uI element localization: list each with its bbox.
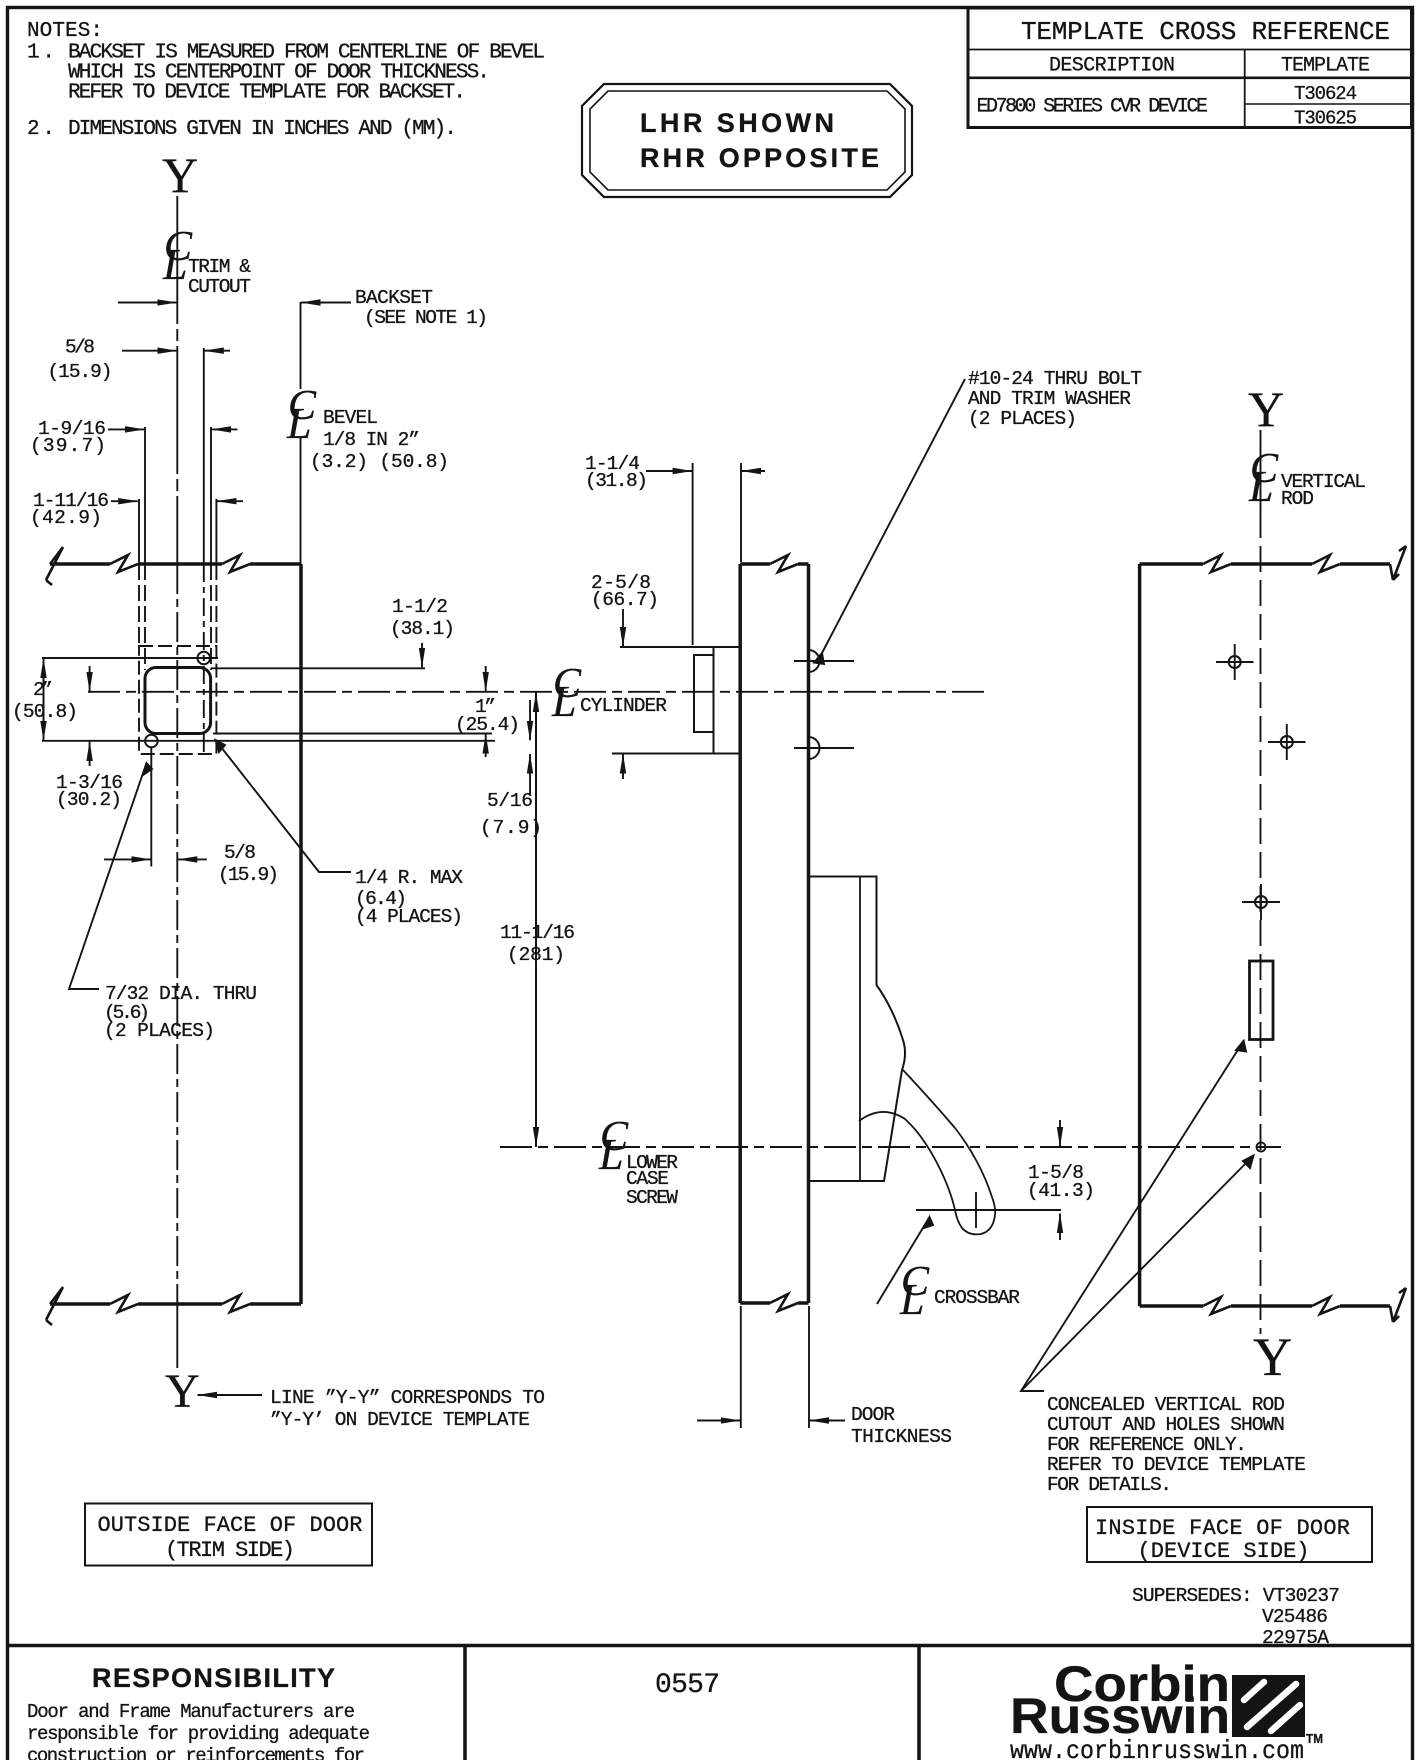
svg-text:11-1/16: 11-1/16 <box>500 922 575 944</box>
svg-text:(SEE NOTE 1): (SEE NOTE 1) <box>364 307 488 329</box>
svg-text:CUTOUT AND HOLES SHOWN: CUTOUT AND HOLES SHOWN <box>1047 1414 1285 1436</box>
svg-text:ED7800 SERIES CVR DEVICE: ED7800 SERIES CVR DEVICE <box>977 96 1209 119</box>
svg-text:REFER TO DEVICE TEMPLATE: REFER TO DEVICE TEMPLATE <box>1047 1454 1306 1476</box>
svg-text:DESCRIPTION: DESCRIPTION <box>1049 55 1175 78</box>
svg-text:1/8 IN 2”: 1/8 IN 2” <box>323 429 420 451</box>
svg-text:BACKSET: BACKSET <box>355 287 433 309</box>
svg-text:(38.1): (38.1) <box>390 618 455 640</box>
svg-text:Door and Frame Manufacturers a: Door and Frame Manufacturers are <box>27 1701 355 1723</box>
svg-text:RHR OPPOSITE: RHR OPPOSITE <box>640 143 879 173</box>
svg-text:5/16: 5/16 <box>487 790 533 812</box>
svg-text:5/8: 5/8 <box>65 337 95 359</box>
svg-text:FOR REFERENCE ONLY.: FOR REFERENCE ONLY. <box>1047 1434 1247 1456</box>
svg-text:(25.4): (25.4) <box>455 714 520 736</box>
svg-text:BEVEL: BEVEL <box>323 407 378 429</box>
svg-text:NOTES:: NOTES: <box>27 20 103 43</box>
svg-text:OUTSIDE FACE OF DOOR: OUTSIDE FACE OF DOOR <box>98 1513 363 1538</box>
svg-text:TEMPLATE CROSS REFERENCE: TEMPLATE CROSS REFERENCE <box>1021 17 1390 47</box>
svg-text:(TRIM SIDE): (TRIM SIDE) <box>165 1538 295 1563</box>
svg-text:responsible for providing adeq: responsible for providing adequate <box>27 1723 370 1745</box>
svg-text:(30.2): (30.2) <box>56 789 122 811</box>
svg-text:(2 PLACES): (2 PLACES) <box>104 1020 215 1042</box>
svg-text:#10-24 THRU BOLT: #10-24 THRU BOLT <box>968 368 1142 390</box>
svg-text:Y: Y <box>165 1365 200 1418</box>
svg-text:TEMPLATE: TEMPLATE <box>1281 55 1370 78</box>
svg-text:REFER TO DEVICE TEMPLATE FOR B: REFER TO DEVICE TEMPLATE FOR BACKSET. <box>68 82 466 105</box>
svg-text:ROD: ROD <box>1281 488 1314 510</box>
svg-text:(15.9): (15.9) <box>48 361 113 383</box>
svg-text:FOR DETAILS.: FOR DETAILS. <box>1047 1474 1172 1496</box>
svg-text:DOOR: DOOR <box>851 1404 895 1426</box>
svg-text:SCREW: SCREW <box>626 1187 678 1209</box>
svg-text:SUPERSEDES: VT30237: SUPERSEDES: VT30237 <box>1132 1585 1340 1607</box>
svg-text:1/4 R. MAX: 1/4 R. MAX <box>355 867 463 889</box>
svg-text:TM: TM <box>1306 1731 1323 1746</box>
svg-text:Y: Y <box>162 147 198 203</box>
svg-text:1-1/2: 1-1/2 <box>392 596 448 618</box>
svg-text:(42.9): (42.9) <box>30 507 102 529</box>
svg-text:2.: 2. <box>27 118 55 141</box>
svg-text:”Y-Y’ ON DEVICE TEMPLATE: ”Y-Y’ ON DEVICE TEMPLATE <box>270 1409 530 1431</box>
svg-text:CUTOUT: CUTOUT <box>188 276 251 298</box>
svg-text:(66.7): (66.7) <box>591 589 659 611</box>
svg-text:T30624: T30624 <box>1294 83 1357 105</box>
svg-text:LHR SHOWN: LHR SHOWN <box>640 108 834 138</box>
svg-text:LINE ”Y-Y” CORRESPONDS TO: LINE ”Y-Y” CORRESPONDS TO <box>270 1387 545 1409</box>
svg-text:T30625: T30625 <box>1294 108 1357 130</box>
svg-text:www.corbinrusswin.com: www.corbinrusswin.com <box>1010 1736 1304 1760</box>
svg-text:(31.8): (31.8) <box>585 470 648 492</box>
svg-text:CYLINDER: CYLINDER <box>580 695 667 717</box>
svg-text:RESPONSIBILITY: RESPONSIBILITY <box>92 1663 335 1693</box>
svg-text:2”: 2” <box>33 679 53 701</box>
svg-text:DIMENSIONS GIVEN IN INCHES AND: DIMENSIONS GIVEN IN INCHES AND (MM). <box>68 118 457 141</box>
svg-text:AND TRIM WASHER: AND TRIM WASHER <box>968 388 1131 410</box>
svg-text:1.: 1. <box>27 42 55 65</box>
svg-text:0557: 0557 <box>655 1670 720 1701</box>
svg-text:THICKNESS: THICKNESS <box>851 1426 952 1448</box>
svg-text:V25486: V25486 <box>1262 1606 1328 1628</box>
svg-text:(39.7): (39.7) <box>30 435 106 457</box>
svg-text:CONCEALED VERTICAL ROD: CONCEALED VERTICAL ROD <box>1047 1394 1285 1416</box>
svg-text:(7.9): (7.9) <box>480 817 542 839</box>
svg-text:Y: Y <box>1248 381 1284 437</box>
svg-text:(2 PLACES): (2 PLACES) <box>968 408 1077 430</box>
svg-text:CROSSBAR: CROSSBAR <box>934 1287 1020 1309</box>
svg-text:(15.9): (15.9) <box>218 864 279 886</box>
svg-text:(3.2) (50.8): (3.2) (50.8) <box>310 451 449 473</box>
svg-text:(41.3): (41.3) <box>1027 1180 1095 1202</box>
svg-text:INSIDE FACE OF DOOR: INSIDE FACE OF DOOR <box>1095 1516 1350 1541</box>
svg-text:5/8: 5/8 <box>224 842 256 864</box>
svg-text:(50.8): (50.8) <box>12 701 78 723</box>
svg-text:Y: Y <box>1253 1327 1292 1387</box>
svg-text:TRIM &: TRIM & <box>188 256 251 278</box>
svg-text:22975A: 22975A <box>1262 1627 1329 1649</box>
svg-text:construction or reinforcements: construction or reinforcements for <box>27 1745 365 1760</box>
svg-text:(DEVICE SIDE): (DEVICE SIDE) <box>1138 1539 1310 1564</box>
svg-text:(4 PLACES): (4 PLACES) <box>355 906 463 928</box>
